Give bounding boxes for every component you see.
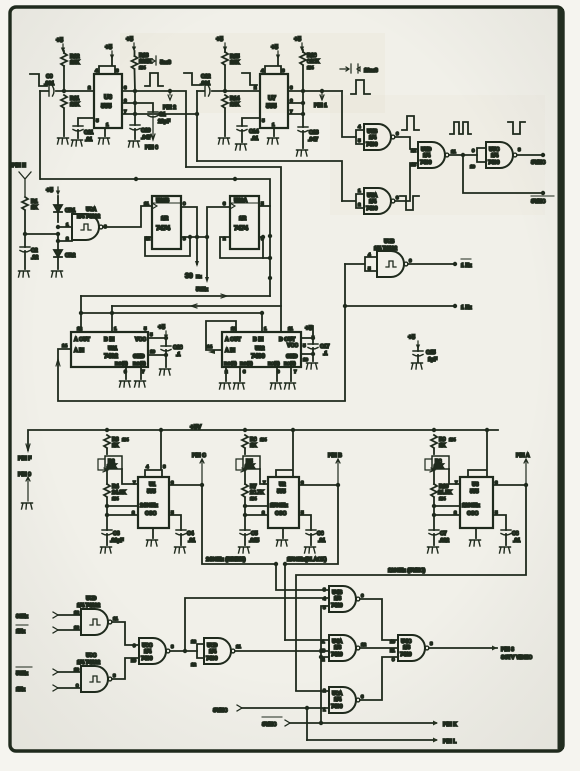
svg-text:C9: C9 [46, 74, 53, 80]
svg-text:.047: .047 [141, 135, 151, 141]
svg-text:7410: 7410 [331, 603, 343, 609]
svg-text:C17: C17 [320, 344, 330, 350]
svg-text:RO(2): RO(2) [240, 361, 253, 366]
resistor R6 [242, 435, 248, 448]
capacitor C1 22pF [135, 103, 153, 112]
wire line A to U5A [197, 161, 342, 201]
U2 pins 4,8 bracket [276, 430, 293, 477]
svg-text:4: 4 [368, 252, 371, 257]
svg-text:.015: .015 [249, 538, 259, 544]
svg-text:13: 13 [74, 625, 80, 630]
svg-text:11: 11 [113, 616, 118, 621]
svg-text:.1: .1 [176, 352, 180, 358]
svg-text:14: 14 [207, 344, 213, 349]
svg-text:C8: C8 [512, 531, 519, 537]
pulse notch after U5C [508, 122, 525, 134]
resistor R11 [61, 95, 67, 108]
svg-text:8: 8 [171, 644, 174, 649]
svg-text:7: 7 [142, 369, 145, 374]
svg-text:7400: 7400 [331, 704, 343, 710]
capacitor C6 pin5 [299, 515, 311, 530]
grounds RO R9 pins U12 [226, 367, 291, 381]
node SYNC-bar input [262, 716, 282, 718]
svg-text:A OUT: A OUT [74, 337, 91, 343]
diode CR2 [54, 250, 62, 257]
svg-text:11: 11 [390, 648, 395, 653]
svg-text:1K: 1K [31, 205, 38, 211]
svg-text:4: 4 [323, 596, 326, 601]
svg-text:.01: .01 [513, 538, 520, 544]
svg-text:1: 1 [272, 122, 275, 127]
node SYNC output [517, 154, 543, 156]
wire U11 gnd pin10 [148, 354, 166, 356]
U7 pin1 ground [273, 128, 275, 136]
svg-text:VCC: VCC [135, 337, 146, 343]
svg-text:+5: +5 [105, 44, 113, 51]
svg-text:7400: 7400 [488, 160, 500, 166]
svg-text:4: 4 [358, 124, 361, 129]
wire +5V rail [28, 430, 498, 450]
U1 pins 4,8 bracket [145, 430, 162, 477]
svg-text:4: 4 [95, 68, 98, 73]
resistor R4 [106, 467, 108, 484]
svg-text:.1: .1 [323, 351, 327, 357]
wire pin7 to trimpot [260, 469, 268, 484]
svg-text:1/4 74132: 1/4 74132 [374, 246, 397, 252]
svg-text:U10A: U10A [234, 198, 248, 204]
svg-text:1: 1 [114, 326, 117, 331]
svg-text:PIN 6: PIN 6 [145, 145, 158, 151]
svg-text:SSTV VIDEO: SSTV VIDEO [501, 655, 532, 661]
svg-text:R9(2): R9(2) [284, 361, 296, 366]
wire long y179 bus [41, 179, 270, 296]
svg-text:1%: 1% [307, 65, 314, 70]
svg-text:12K: 12K [70, 102, 80, 108]
svg-text:1%: 1% [139, 65, 146, 70]
svg-text:U10B: U10B [156, 198, 170, 204]
gate U5D 1/4 7400 [418, 142, 449, 168]
svg-text:A IN: A IN [74, 348, 84, 354]
svg-text:C11: C11 [84, 130, 93, 136]
svg-text:1500Hz: 1500Hz [270, 503, 288, 509]
svg-text:5: 5 [303, 343, 306, 348]
wire C9 input drop [39, 91, 41, 179]
wire U11 A IN feedback [58, 349, 345, 401]
capacitor C4 pin5 [169, 515, 181, 530]
resistor R15 [222, 52, 228, 65]
svg-text:1/4: 1/4 [209, 649, 216, 655]
svg-text:5: 5 [368, 266, 371, 271]
svg-text:555: 555 [101, 103, 112, 110]
svg-text:.01μF: .01μF [110, 538, 124, 544]
svg-text:9: 9 [133, 643, 136, 648]
svg-text:GND: GND [286, 354, 298, 360]
wire U8C out node [170, 650, 197, 652]
U7 pins 4,8 bracket [265, 58, 281, 74]
10mS width annotation [340, 64, 360, 73]
svg-text:U11: U11 [108, 346, 117, 352]
svg-text:10: 10 [470, 164, 476, 169]
wire bus y313 [81, 312, 262, 314]
svg-text:8: 8 [518, 147, 521, 152]
wire output to 2400 bus [202, 485, 276, 564]
svg-text:+5V: +5V [190, 424, 202, 431]
wire U9C out to U8C [112, 658, 139, 679]
capacitor C14 pin5 [242, 118, 260, 126]
svg-text:1/2: 1/2 [239, 216, 246, 222]
svg-text:7400: 7400 [366, 142, 378, 148]
svg-text:7492: 7492 [104, 353, 119, 360]
node 1Hz-bar input [16, 624, 28, 626]
wire U12 gnd pin10 [301, 353, 313, 355]
svg-text:1%: 1% [122, 437, 129, 442]
pulse double after U5D [450, 122, 471, 134]
svg-text:1%: 1% [260, 437, 267, 442]
svg-text:U12: U12 [255, 346, 265, 352]
svg-text:U9A: U9A [86, 207, 97, 213]
resistor R14 [222, 95, 228, 108]
resistor R9 [431, 435, 437, 448]
svg-text:7474: 7474 [156, 225, 171, 232]
svg-text:22pF: 22pF [158, 119, 170, 125]
svg-text:R9(1): R9(1) [268, 361, 280, 366]
wire U9A out to U10B clock [103, 206, 152, 227]
node 1 Hz output [345, 305, 455, 307]
counter U12 7490 [222, 332, 301, 367]
timer U3 555 1200Hz osc [460, 477, 493, 528]
svg-text:10mS: 10mS [364, 68, 378, 74]
svg-text:1: 1 [66, 222, 69, 227]
wire node to CR junction [25, 233, 58, 235]
svg-text:C2: C2 [31, 248, 38, 254]
wire bus y296 [81, 295, 270, 297]
svg-text:1%: 1% [449, 437, 456, 442]
wire output to 1200 bus [296, 485, 526, 690]
ground RO pins U11 [126, 367, 141, 379]
U2 pin1 ground [282, 528, 284, 538]
svg-text:12K: 12K [230, 102, 240, 108]
svg-text:7474: 7474 [234, 225, 249, 232]
svg-text:PIN 1: PIN 1 [314, 103, 327, 109]
5mS width annotation [145, 56, 156, 65]
svg-text:2: 2 [262, 510, 265, 515]
svg-text:30Hz: 30Hz [16, 614, 29, 620]
wire U3 output PIN A [493, 484, 526, 486]
capacitor C5 [240, 530, 250, 535]
node 30Hz tag [195, 261, 199, 267]
svg-text:5: 5 [96, 118, 99, 123]
U6 pins 4,8 bracket [99, 58, 115, 74]
svg-text:C1: C1 [159, 112, 166, 118]
svg-text:1%: 1% [250, 496, 257, 501]
svg-text:1μF: 1μF [428, 357, 437, 363]
wire U9B input vertical [344, 264, 346, 400]
wire output to 1500 bus [285, 485, 338, 640]
svg-text:555: 555 [277, 489, 286, 495]
svg-text:2400Hz: 2400Hz [140, 503, 158, 509]
svg-text:C5: C5 [251, 531, 258, 537]
svg-text:U2: U2 [279, 482, 286, 488]
wire U9D out to U8C [112, 622, 139, 645]
wire U6 output pin3 to corner [122, 91, 186, 167]
svg-text:5: 5 [150, 332, 153, 337]
U7 output wire pin3 [288, 90, 342, 92]
svg-text:6: 6 [396, 131, 399, 136]
svg-text:1500Hz(BLACK): 1500Hz(BLACK) [287, 557, 327, 563]
svg-text:20K: 20K [245, 464, 255, 470]
svg-text:PIN 2: PIN 2 [163, 105, 176, 111]
pulse symbol before C12 [184, 73, 199, 85]
svg-text:3: 3 [243, 369, 246, 374]
svg-text:C12: C12 [201, 74, 211, 80]
wire U10A Q down [259, 205, 270, 207]
capacitor C13 [298, 127, 308, 132]
gate U8D 1/4 7400 [197, 644, 204, 658]
svg-text:11: 11 [288, 326, 293, 331]
svg-text:6: 6 [361, 593, 364, 598]
svg-text:.01: .01 [188, 538, 195, 544]
svg-text:C6: C6 [317, 531, 324, 537]
svg-text:PIN F: PIN F [18, 456, 31, 462]
svg-text:C13: C13 [309, 130, 319, 136]
wire pins 2,6 tie [434, 506, 460, 515]
svg-text:8: 8 [113, 673, 116, 678]
svg-text:OSC: OSC [145, 511, 156, 517]
timer U1 555 2400Hz osc [138, 477, 169, 528]
svg-text:1/4 74132: 1/4 74132 [77, 214, 100, 220]
svg-text:C15: C15 [426, 350, 436, 356]
svg-text:30: 30 [185, 273, 193, 280]
svg-text:1/3: 1/3 [334, 596, 341, 602]
svg-text:10: 10 [131, 658, 137, 663]
pulse after U5B [402, 116, 419, 130]
wire U12 pin12 loop to A IN [206, 321, 236, 350]
svg-text:PIN A: PIN A [516, 453, 530, 459]
svg-text:1200Hz (SYNC): 1200Hz (SYNC) [388, 568, 425, 574]
svg-text:6: 6 [409, 258, 412, 263]
svg-text:C14: C14 [249, 129, 259, 135]
svg-text:13: 13 [411, 162, 417, 167]
svg-text:+5: +5 [46, 187, 54, 194]
svg-text:U7: U7 [268, 95, 277, 102]
svg-text:10K: 10K [70, 60, 80, 66]
diode CR1 [54, 205, 62, 212]
U7 pins 6,7 node [288, 103, 303, 114]
capacitor C3 [102, 530, 112, 535]
wire pin7 to trimpot [449, 469, 460, 484]
gate U5B 1/4 7400 [356, 130, 364, 144]
svg-text:1K: 1K [439, 443, 446, 449]
U3 pins 4,8 bracket [468, 430, 487, 477]
pulse symbol 5ms [145, 73, 163, 86]
wire U7 out to U5B [342, 91, 356, 137]
gate U4B 1/3 7410 [329, 586, 360, 612]
svg-text:10: 10 [74, 667, 80, 672]
svg-text:12: 12 [361, 642, 367, 647]
wire U10B Qbar line [181, 236, 207, 238]
wire bus y306 [112, 305, 281, 307]
svg-text:1/3: 1/3 [403, 645, 410, 651]
svg-text:U3: U3 [472, 482, 479, 488]
svg-text:1: 1 [106, 122, 109, 127]
svg-text:50Hz: 50Hz [196, 287, 209, 293]
wire line B to U12 pin11 [186, 167, 281, 332]
svg-text:1/4: 1/4 [369, 199, 376, 205]
wire pin7 to trimpot [122, 469, 138, 484]
wire U10B Qbar feedback [145, 237, 190, 256]
svg-text:U9D: U9D [86, 596, 97, 602]
svg-text:4: 4 [146, 464, 149, 469]
svg-text:8: 8 [282, 68, 285, 73]
pulse below U5A [400, 196, 419, 210]
svg-text:7400: 7400 [366, 206, 378, 212]
svg-text:3: 3 [396, 195, 399, 200]
svg-text:.01: .01 [85, 137, 92, 143]
svg-text:RO(1): RO(1) [224, 361, 237, 366]
svg-text:5: 5 [262, 118, 265, 123]
capacitor C7 [429, 530, 439, 535]
resistor R1 [22, 197, 28, 210]
svg-text:7490: 7490 [251, 353, 266, 360]
svg-text:13: 13 [191, 639, 197, 644]
svg-text:PIN H: PIN H [12, 163, 26, 169]
svg-text:2: 2 [88, 85, 91, 90]
svg-text:+5: +5 [158, 324, 166, 331]
svg-text:3: 3 [290, 85, 293, 90]
svg-text:7400: 7400 [141, 656, 153, 662]
svg-text:2: 2 [454, 510, 457, 515]
svg-text:1200Hz: 1200Hz [462, 503, 480, 509]
svg-text:2400Hz (WHITE): 2400Hz (WHITE) [206, 557, 246, 563]
svg-text:11: 11 [144, 201, 149, 206]
svg-text:8: 8 [430, 641, 433, 646]
resistor R12 [61, 53, 67, 66]
wire U11 pin12 up [80, 296, 82, 332]
wire U4B out to U4C [360, 599, 398, 640]
svg-text:.01: .01 [251, 136, 258, 142]
gate U5A 1/4 7400 [342, 194, 364, 208]
svg-text:PIN L: PIN L [443, 739, 457, 745]
gate U9B 1/4 74132 [345, 257, 377, 271]
wire U1 output PIN C [169, 484, 202, 486]
svg-text:Hz: Hz [196, 274, 202, 279]
svg-text:PIN K: PIN K [443, 722, 457, 728]
wire U10B Q down [181, 207, 197, 264]
trimpot R2 [105, 456, 122, 469]
svg-text:+5: +5 [271, 44, 279, 51]
svg-text:OSC: OSC [275, 511, 286, 517]
U6 pins 6,7 node [122, 91, 135, 125]
pulse symbol before U7 [242, 73, 257, 85]
node 50Hz tag [205, 277, 209, 283]
svg-text:SYNC: SYNC [531, 199, 546, 205]
timer U2 555 1500Hz osc [268, 477, 299, 528]
wire node y114 over to x197 [135, 91, 197, 161]
svg-text:CR2: CR2 [65, 253, 75, 259]
svg-text:9: 9 [76, 683, 79, 688]
node PIN 2 tap [168, 89, 172, 93]
svg-text:11: 11 [236, 644, 241, 649]
svg-text:20K: 20K [434, 464, 444, 470]
pulse symbol 10ms [351, 80, 370, 94]
gate U4C 1/3 7410 [398, 635, 429, 661]
svg-text:+5: +5 [408, 334, 416, 341]
U3 pin1 ground [475, 528, 477, 538]
svg-text:10: 10 [390, 639, 396, 644]
svg-text:C3: C3 [113, 531, 120, 537]
wire U4A out to U4C [360, 647, 398, 649]
U1 pin1 ground [152, 528, 154, 538]
wire U11 vcc pin5 [148, 337, 166, 339]
wire U12 pin1 up [261, 313, 263, 332]
node PIN 3 SSTV VIDEO output [429, 647, 497, 649]
svg-text:7410: 7410 [331, 652, 343, 658]
node PIN F [26, 444, 30, 451]
svg-text:1: 1 [264, 326, 267, 331]
gate U8C 1/4 7400 [139, 638, 170, 664]
svg-text:12: 12 [74, 610, 80, 615]
svg-text:3: 3 [223, 201, 226, 206]
svg-text:PIN 9: PIN 9 [18, 472, 31, 478]
svg-text:1/4: 1/4 [491, 153, 498, 159]
svg-text:C4: C4 [187, 531, 194, 537]
svg-text:.01: .01 [318, 538, 325, 544]
svg-text:RO(1): RO(1) [115, 361, 128, 366]
svg-text:+5: +5 [305, 325, 313, 332]
svg-text:10: 10 [303, 357, 309, 362]
wire U2 output PIN B [299, 484, 338, 486]
svg-text:1 Hz: 1 Hz [461, 305, 472, 311]
svg-text:7410: 7410 [400, 652, 412, 658]
svg-text:2: 2 [66, 236, 69, 241]
svg-text:2: 2 [132, 510, 135, 515]
svg-text:SYNC: SYNC [531, 160, 546, 166]
svg-text:10K: 10K [230, 60, 240, 66]
wire U10A clock from node [207, 207, 230, 279]
wire U10A Qbar feedback [220, 237, 263, 258]
svg-text:B IN: B IN [253, 337, 264, 343]
svg-text:PIN B: PIN B [328, 453, 342, 459]
svg-text:.22: .22 [31, 255, 38, 261]
trimpot R5 [243, 456, 260, 469]
svg-text:555: 555 [470, 489, 479, 495]
svg-text:+5: +5 [56, 37, 64, 44]
svg-text:5: 5 [144, 326, 147, 331]
svg-text:1/2: 1/2 [161, 216, 168, 222]
svg-text:U9B: U9B [384, 239, 395, 245]
flip-flop U10A 1/2 7474 [230, 196, 259, 249]
svg-text:1K: 1K [250, 443, 257, 449]
svg-text:1Hz: 1Hz [16, 629, 26, 635]
svg-text:1%: 1% [112, 496, 119, 501]
svg-text:U6: U6 [104, 94, 113, 101]
svg-text:.047: .047 [308, 137, 318, 143]
svg-text:1/4: 1/4 [144, 649, 151, 655]
wire pins 2,6 tie [107, 506, 138, 515]
node PIN L output [307, 739, 436, 741]
svg-text:9: 9 [183, 201, 186, 206]
svg-text:12: 12 [191, 662, 197, 667]
flip-flop U10B 1/2 7474 [152, 196, 181, 249]
svg-text:5mS: 5mS [160, 60, 171, 66]
svg-text:PIN C: PIN C [192, 453, 206, 459]
svg-text:.022: .022 [439, 538, 449, 544]
node 50Hz-bar input [16, 666, 32, 668]
svg-text:4: 4 [261, 68, 264, 73]
svg-text:A OUT: A OUT [225, 337, 242, 343]
wire pins 2,6 tie [245, 506, 268, 515]
trimpot R8 [432, 456, 449, 469]
